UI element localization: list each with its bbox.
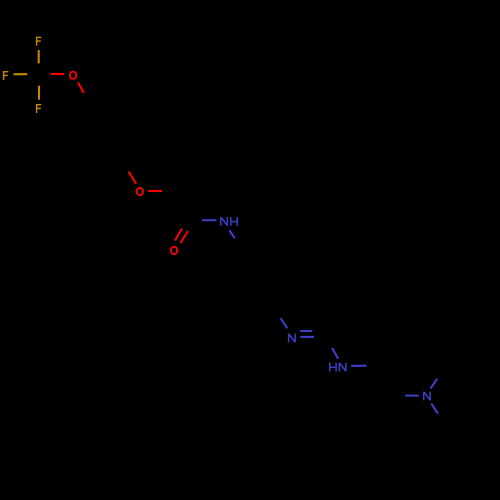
- wire N2-C half-bond up-right: [431, 379, 438, 389]
- fluorine F1 label (top): [36, 37, 41, 46]
- wire C-O1 half-bond (CF3 to ether O): [51, 73, 64, 75]
- pyridine N1 label: [289, 334, 296, 343]
- secondary amine HN label: [330, 363, 346, 372]
- wire N1=C2 double bond inner half line: [300, 330, 312, 332]
- wire NH-ring half-bond (to aryl C6): [229, 230, 235, 238]
- wire CH2-N2 half-bond (chain to amine N): [405, 395, 419, 397]
- oxygen O1 label (OCF3): [70, 72, 76, 79]
- wire O2-CH2 half-bond: [148, 190, 162, 192]
- fluorine F3 label (bottom): [36, 104, 41, 113]
- tertiary amine N2 label: [424, 392, 431, 401]
- oxygen O2 label (aryl ether): [137, 188, 143, 195]
- wire N2-C half-bond down-right: [431, 404, 438, 414]
- wire C=O3 double bond half line 2: [181, 231, 189, 243]
- wire O1-ring half-bond (to phenyl C1): [78, 83, 84, 93]
- wire N1=C2 double bond main half line: [300, 336, 314, 338]
- wire C=O3 double bond half line 1: [175, 229, 182, 241]
- wire C8a-N1 half-bond (ring to pyridine N): [281, 318, 288, 328]
- oxygen O3 label (carbonyl): [171, 247, 177, 254]
- wire ring-O2 half-bond (phenyl C4 to ether O): [129, 172, 137, 184]
- wire C-F1 half-bond (vertical top): [38, 50, 40, 63]
- wire C-F2 half-bond (horizontal left): [14, 73, 28, 75]
- wire C2-N half-bond down to HN: [332, 348, 338, 359]
- amide NH label: [221, 217, 237, 226]
- wire HN-CH2 half-bond: [351, 365, 367, 367]
- fluorine F2 label (left): [3, 71, 8, 80]
- wire C(=O)-N half-bond to amide NH: [202, 219, 216, 221]
- wire C-F3 half-bond (vertical bottom): [38, 86, 40, 100]
